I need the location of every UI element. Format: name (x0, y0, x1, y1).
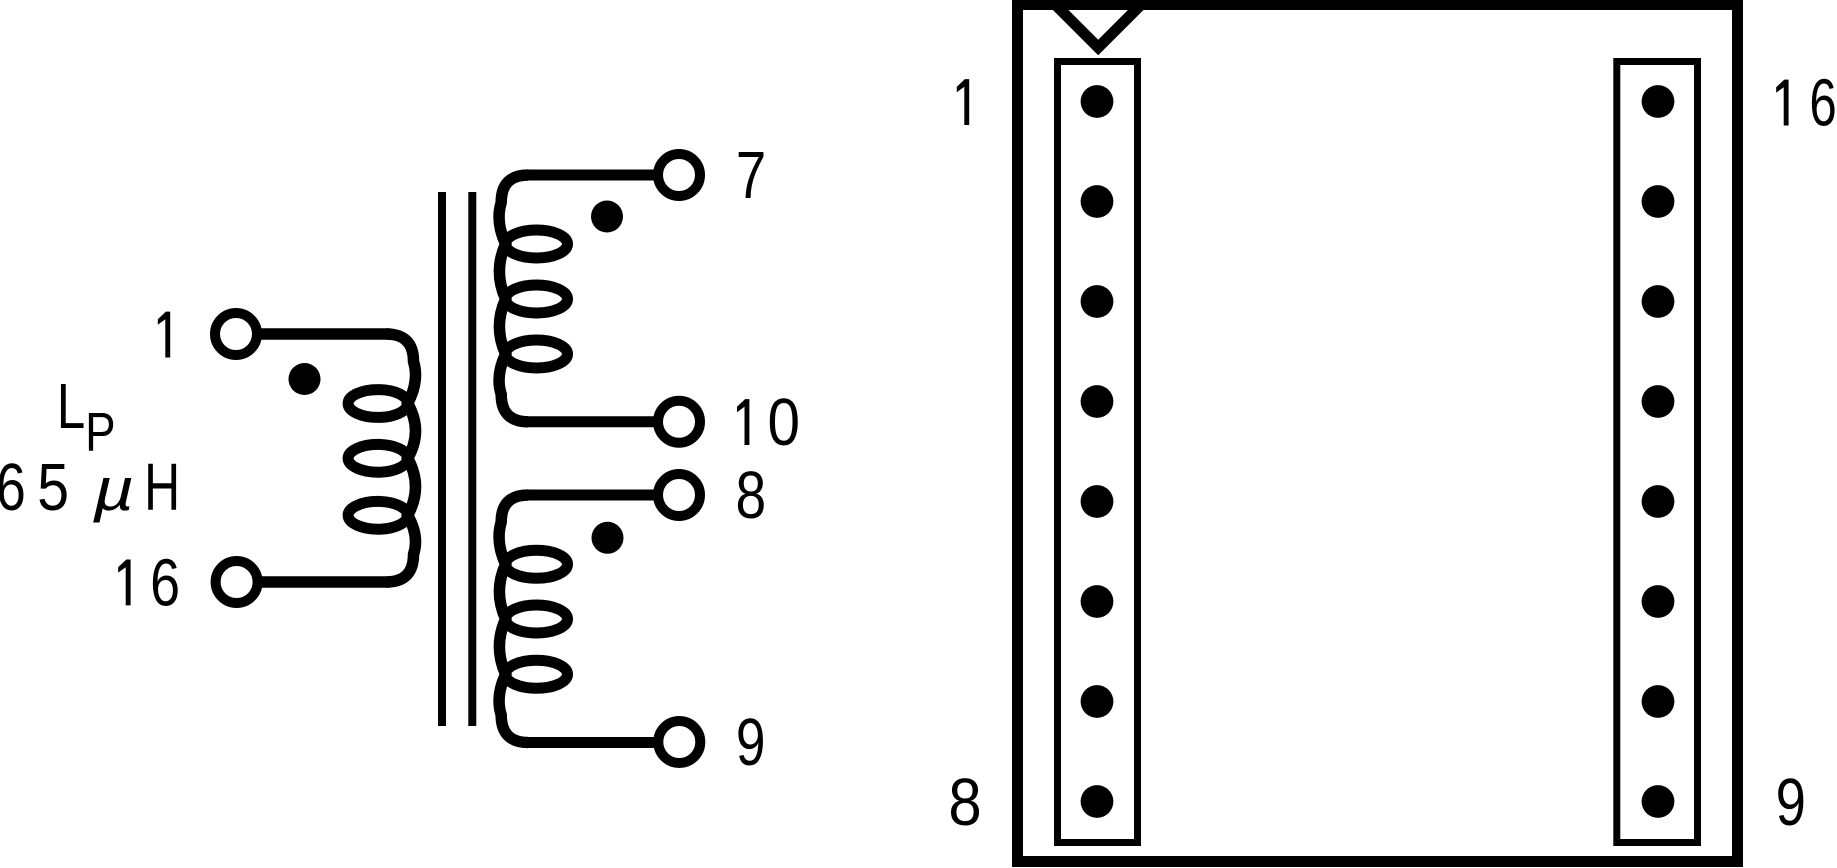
package label pin 9 (1776, 765, 1806, 839)
package label pin 1 (957, 79, 969, 125)
transformer core line 1 (438, 192, 446, 726)
svg-text:H: H (144, 451, 180, 525)
svg-text:9: 9 (1776, 765, 1806, 839)
pin 8 terminal (658, 474, 700, 516)
secondary winding B loop 1 (506, 550, 568, 578)
pin 12 dot (1642, 485, 1675, 518)
phase dot secondary A (591, 201, 623, 233)
secondary winding A loop 3 (506, 340, 568, 368)
label Lp (57, 372, 85, 443)
pin 5 dot (1081, 485, 1114, 518)
IC package outline (1018, 5, 1738, 862)
label pin 9 (736, 704, 766, 779)
wire secondary B to pin 9 (525, 737, 679, 748)
label pin 1 (158, 312, 170, 358)
svg-text:7: 7 (736, 138, 766, 212)
right pin row box (1617, 62, 1698, 843)
pin 1 notch orientation mark (1055, 4, 1142, 48)
package label pin 8 (948, 766, 981, 840)
secondary winding B loop 3 (506, 660, 568, 688)
pin 7 terminal (658, 154, 700, 196)
pin 16 dot (1642, 85, 1675, 118)
secondary winding B spine with corners (499, 495, 528, 743)
wire pin 1 to primary winding (261, 328, 390, 340)
wire secondary A to pin 10 (525, 416, 679, 427)
pin 1 terminal (215, 313, 257, 355)
pin 6 dot (1081, 585, 1114, 618)
wire secondary A to pin 7 (525, 170, 679, 181)
wire secondary B to pin 8 (525, 490, 679, 501)
phase dot secondary B (592, 522, 624, 554)
phase dot primary (289, 363, 321, 395)
svg-text:0: 0 (768, 386, 801, 460)
pin 9 dot (1642, 785, 1675, 818)
secondary winding A loop 1 (506, 230, 568, 258)
pin 3 dot (1081, 285, 1114, 318)
pin 14 dot (1642, 285, 1675, 318)
label pin 8 (735, 458, 766, 532)
svg-text:µ: µ (92, 455, 134, 522)
label pin 7 (736, 138, 766, 212)
pin 10 dot (1642, 685, 1675, 718)
svg-text:P: P (85, 400, 115, 462)
svg-text:6: 6 (0, 449, 26, 524)
svg-text:8: 8 (735, 458, 766, 532)
secondary winding A spine with corners (499, 175, 528, 422)
pin 15 dot (1642, 185, 1675, 218)
wire primary winding to pin 16 (262, 576, 390, 588)
label pin 16 (118, 560, 130, 606)
label pin 10 (737, 399, 749, 445)
left pin row box (1058, 62, 1138, 843)
secondary winding A loop 2 (506, 285, 568, 313)
svg-text:L: L (57, 372, 85, 443)
svg-text:5: 5 (37, 451, 69, 525)
svg-text:6: 6 (150, 545, 180, 620)
pin 9 terminal (658, 721, 700, 763)
pin 13 dot (1642, 385, 1675, 418)
pin 8 dot (1081, 785, 1114, 818)
primary winding loop 3 (348, 501, 408, 529)
transformer core line 2 (468, 192, 476, 726)
pin 11 dot (1642, 585, 1675, 618)
pin 1 dot (1081, 85, 1114, 118)
label 65 uH (0, 449, 26, 524)
primary winding loop 1 (348, 390, 408, 418)
svg-text:6: 6 (1809, 67, 1836, 141)
svg-text:9: 9 (736, 704, 766, 779)
primary winding loop 2 (348, 444, 408, 472)
pin 10 terminal (658, 401, 700, 443)
secondary winding B loop 2 (506, 605, 568, 633)
pin 2 dot (1081, 185, 1114, 218)
svg-text:8: 8 (948, 766, 981, 840)
pin 16 terminal (216, 561, 258, 603)
primary winding Lp spine with corners (386, 334, 416, 582)
pin 7 dot (1081, 685, 1114, 718)
pin 4 dot (1081, 385, 1114, 418)
package label pin 16 (1776, 80, 1788, 126)
